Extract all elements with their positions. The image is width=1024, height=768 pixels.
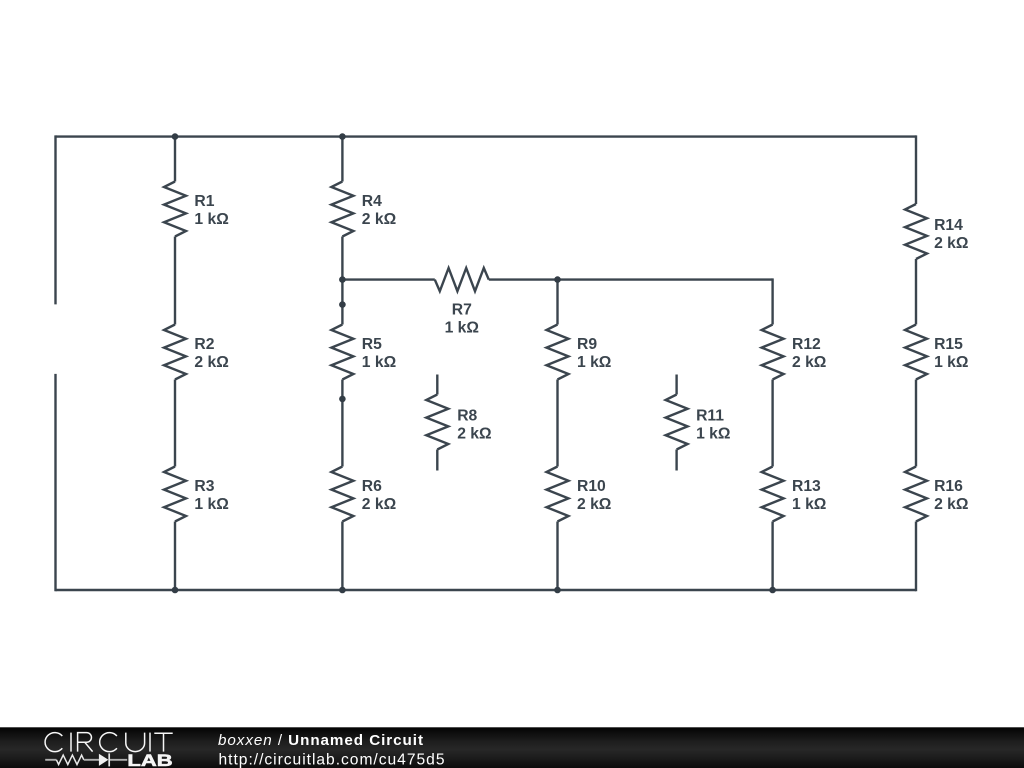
svg-text:R14: R14	[934, 217, 963, 234]
logo letter I2	[149, 733, 151, 752]
node R5 top terminal	[339, 301, 346, 308]
wire column5 lower	[915, 522, 917, 592]
wire middle rail left	[342, 278, 434, 280]
wire R11 lower lead	[675, 450, 677, 471]
svg-text:2 kΩ: 2 kΩ	[792, 354, 826, 371]
svg-text:R11: R11	[696, 408, 724, 425]
wire column3 mid	[556, 380, 558, 467]
svg-text:1 kΩ: 1 kΩ	[194, 211, 228, 228]
svg-text:boxxen / Unnamed Circuit: boxxen / Unnamed Circuit	[218, 732, 423, 749]
wire column2 lower	[341, 522, 343, 591]
resistor R16	[905, 467, 927, 522]
node middle rail col2	[339, 276, 346, 283]
node bottom rail col3	[554, 587, 561, 594]
logo letter C2	[100, 733, 117, 752]
svg-text:2 kΩ: 2 kΩ	[362, 496, 396, 513]
resistor R7	[435, 268, 489, 291]
logo lead left	[45, 759, 56, 761]
resistor R8	[426, 395, 448, 450]
wire column5 mid1	[915, 259, 917, 325]
wire middle rail right	[489, 278, 773, 280]
resistor R2	[164, 325, 186, 380]
resistor R3	[164, 467, 186, 522]
svg-text:R16: R16	[934, 478, 963, 495]
logo letter C1	[45, 733, 62, 752]
wire column4 upper	[771, 278, 773, 324]
svg-text:R12: R12	[792, 336, 821, 353]
wire column4 lower	[771, 522, 773, 591]
logo letter U	[126, 733, 145, 752]
svg-text:R8: R8	[457, 408, 477, 425]
svg-text:1 kΩ: 1 kΩ	[194, 496, 228, 513]
wire column5 upper	[915, 135, 917, 204]
svg-text:1 kΩ: 1 kΩ	[445, 320, 479, 337]
logo lead mid	[84, 759, 99, 761]
logo letter I1	[70, 733, 72, 752]
svg-text:2 kΩ: 2 kΩ	[934, 235, 968, 252]
svg-text:1 kΩ: 1 kΩ	[577, 354, 611, 371]
wire column1 mid2	[174, 380, 176, 467]
svg-text:1 kΩ: 1 kΩ	[696, 426, 730, 443]
wire column2 mid2	[341, 380, 343, 467]
node R5 bottom terminal	[339, 396, 346, 403]
logo diode cathode bar	[108, 753, 110, 766]
svg-text:http://circuitlab.com/cu475d5: http://circuitlab.com/cu475d5	[219, 751, 445, 768]
svg-text:1 kΩ: 1 kΩ	[934, 354, 968, 371]
resistor R9	[547, 325, 569, 380]
svg-text:2 kΩ: 2 kΩ	[934, 496, 968, 513]
logo letter R	[78, 733, 93, 752]
logo diode triangle	[99, 754, 109, 766]
svg-text:R9: R9	[577, 336, 597, 353]
wire left side lower	[54, 374, 56, 591]
node top rail col2	[339, 133, 346, 140]
wire column1 mid1	[174, 237, 176, 325]
footer bar	[0, 727, 1024, 768]
wire top rail	[56, 135, 917, 137]
resistor R11	[666, 395, 688, 450]
wire R8 upper lead	[436, 375, 438, 395]
resistor R15	[905, 325, 927, 380]
svg-text:2 kΩ: 2 kΩ	[457, 426, 491, 443]
svg-text:LAB: LAB	[127, 752, 172, 768]
node bottom rail col4	[769, 587, 776, 594]
wire column5 mid2	[915, 380, 917, 467]
wire column4 mid	[771, 380, 773, 467]
wire R8 lower lead	[436, 450, 438, 471]
wire column1 lower	[174, 522, 176, 591]
svg-text:1 kΩ: 1 kΩ	[792, 496, 826, 513]
wire left side upper	[54, 135, 56, 304]
wire column1 upper	[174, 137, 176, 182]
svg-text:R4: R4	[362, 193, 382, 210]
resistor R12	[762, 325, 784, 380]
svg-text:R7: R7	[452, 302, 472, 319]
wire R11 upper lead	[675, 375, 677, 395]
logo resistor squiggle	[56, 755, 83, 764]
node bottom rail col2	[339, 587, 346, 594]
node bottom rail col1	[172, 587, 179, 594]
resistor R13	[762, 467, 784, 522]
wire column2 upper	[341, 137, 343, 182]
resistor R10	[547, 467, 569, 522]
logo diode wire	[109, 759, 127, 761]
resistor R6	[331, 467, 353, 522]
svg-text:2 kΩ: 2 kΩ	[194, 354, 228, 371]
svg-text:R10: R10	[577, 478, 606, 495]
resistor R5	[331, 325, 353, 380]
svg-text:R1: R1	[194, 193, 214, 210]
resistor R14	[905, 204, 927, 259]
resistor R4	[331, 182, 353, 237]
svg-text:R6: R6	[362, 478, 382, 495]
svg-text:1 kΩ: 1 kΩ	[362, 354, 396, 371]
svg-text:R15: R15	[934, 336, 963, 353]
svg-text:R3: R3	[194, 478, 214, 495]
wire bottom rail	[56, 589, 917, 591]
wire column3	[556, 280, 558, 325]
svg-text:R2: R2	[194, 336, 214, 353]
node top rail col1	[172, 133, 179, 140]
svg-text:R5: R5	[362, 336, 382, 353]
logo letter T	[154, 733, 172, 751]
resistor R1	[164, 182, 186, 237]
svg-text:2 kΩ: 2 kΩ	[577, 496, 611, 513]
node middle rail col3	[554, 276, 561, 283]
svg-text:2 kΩ: 2 kΩ	[362, 211, 396, 228]
wire column3 lower	[556, 522, 558, 591]
svg-text:R13: R13	[792, 478, 821, 495]
wire column2 mid1	[341, 237, 343, 325]
